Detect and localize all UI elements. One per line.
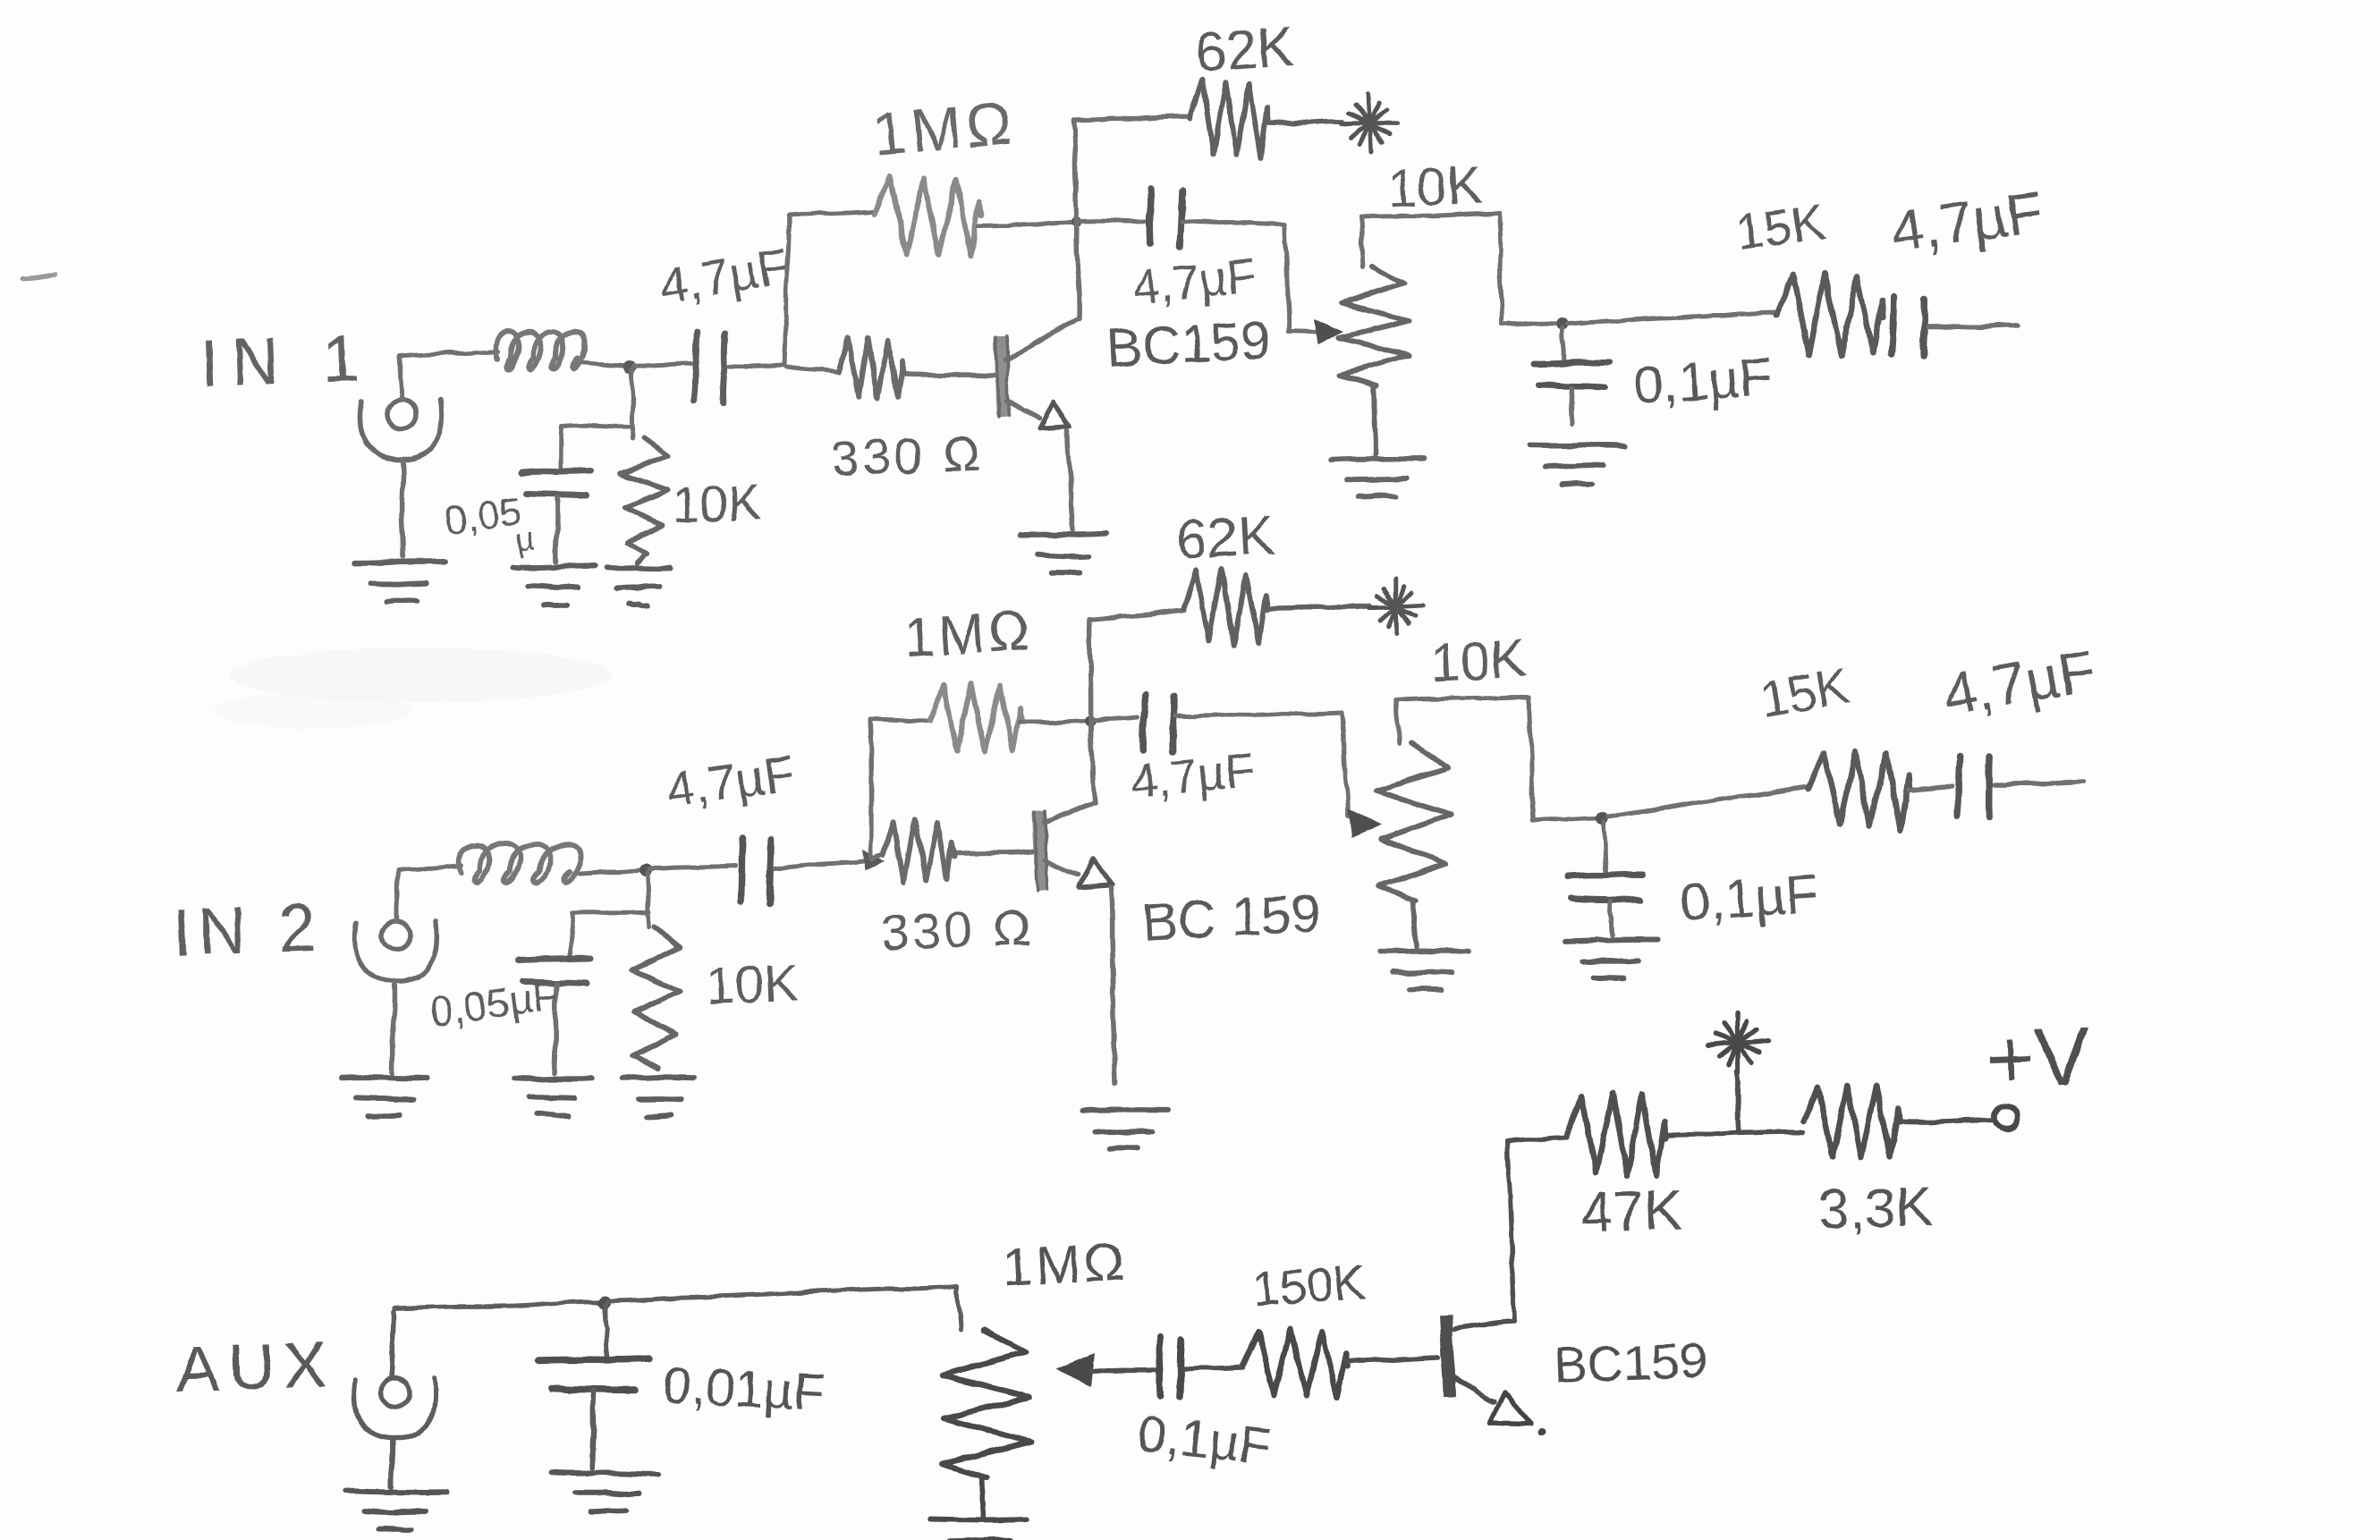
capacitor C7 4.7µF xyxy=(1143,694,1174,751)
transistor Q2 BC159 base bar xyxy=(1034,811,1047,891)
wire C5 out xyxy=(1928,325,2018,327)
capacitor C9 0.1µF xyxy=(1568,822,1643,935)
resistor R3 330Ω xyxy=(787,337,903,398)
ground (C11) xyxy=(552,1473,659,1512)
ground (jack J1) xyxy=(354,562,445,602)
transistor Q3 collector xyxy=(1454,1138,1567,1329)
capacitor C1 4.7uF xyxy=(694,332,724,402)
wire C6 to node F xyxy=(775,850,885,871)
wire J3 to node I xyxy=(394,1302,603,1308)
svg-text:330 Ω: 330 Ω xyxy=(830,425,985,487)
inductor L2 xyxy=(459,843,580,883)
label Q1 BC159 xyxy=(1105,309,1272,378)
label R1 1MΩ xyxy=(870,89,1019,169)
wire node C to C2 xyxy=(1080,218,1145,224)
label C7 4,7µF xyxy=(1128,743,1258,809)
wire J2 to L2 xyxy=(399,866,462,870)
wire node B up to R1 xyxy=(784,212,875,365)
wire top corner 2 to R7 xyxy=(1089,610,1184,621)
resistor R9 10K xyxy=(632,927,681,1069)
ground (pot P2) xyxy=(1379,951,1469,990)
svg-text:0,01µF: 0,01µF xyxy=(661,1356,826,1422)
wire branch to C8 xyxy=(571,911,649,955)
label AUX xyxy=(175,1329,337,1406)
ground (pot P3) xyxy=(930,1519,1025,1540)
ground (C3) xyxy=(513,565,595,605)
node C (collector net) xyxy=(1071,216,1082,227)
transistor Q1 collector xyxy=(1005,318,1079,360)
resistor R13 3.3K xyxy=(1803,1086,1991,1158)
capacitor C5 4.7µF xyxy=(1892,297,1925,356)
svg-text:IN 1: IN 1 xyxy=(199,320,373,401)
svg-text:AUX: AUX xyxy=(175,1329,337,1406)
wire node F up to R6 xyxy=(870,719,929,859)
ground (R4) xyxy=(606,568,669,605)
transistor Q2 emitter xyxy=(1045,860,1078,875)
label R3 330 Ω xyxy=(830,425,985,487)
emitter arrow Q3 xyxy=(1490,1392,1546,1435)
wire node H to R10 xyxy=(1607,787,1808,817)
transistor Q3 emitter xyxy=(1454,1377,1494,1402)
label R8 330 Ω xyxy=(880,899,1035,960)
ground (jack J2) xyxy=(343,1078,428,1117)
resistor R1 1MΩ xyxy=(875,176,1075,256)
ground (R9) xyxy=(623,1077,694,1116)
capacitor C10 4.7µF xyxy=(1957,756,1989,817)
svg-text:+V: +V xyxy=(1985,1011,2091,1105)
node H (output IN2) xyxy=(1596,812,1608,825)
inductor L1 xyxy=(496,331,586,369)
label P3 1MΩ xyxy=(1001,1231,1130,1298)
wire node E to C6 xyxy=(649,866,735,869)
supply star node (AUX) xyxy=(1708,1013,1767,1132)
wire collector net vertical xyxy=(1074,120,1080,318)
label R10 15K xyxy=(1756,656,1853,727)
label R5 15K xyxy=(1732,193,1828,261)
emitter arrow Q1 xyxy=(1040,402,1070,428)
potentiometer P3 1MΩ xyxy=(942,1330,1032,1519)
resistor R8 330Ω xyxy=(873,820,954,883)
label C6 4,7µF xyxy=(663,744,799,817)
svg-text:1MΩ: 1MΩ xyxy=(870,89,1019,169)
transistor Q3 BC159 base bar xyxy=(1445,1315,1450,1397)
emitter arrow Q2 xyxy=(1079,859,1112,887)
pot P1 top bracket xyxy=(1361,214,1556,325)
capacitor C8 0.05µF xyxy=(519,958,590,984)
label R13 3,3K xyxy=(1817,1176,1934,1241)
wire J1 to L1 xyxy=(400,351,498,356)
wire C2 to wiper P1 xyxy=(1182,221,1315,332)
label Q2 BC 159 xyxy=(1140,884,1322,952)
supply star node (IN1) xyxy=(1341,95,1398,152)
label R11 150K xyxy=(1251,1255,1368,1316)
wire R3 to Q1 base xyxy=(903,375,995,376)
eraser smudge xyxy=(215,648,613,729)
wire C8 to ground xyxy=(555,984,556,1073)
capacitor C12 0.1µF xyxy=(1159,1338,1182,1397)
node D (output IN1) xyxy=(1556,317,1569,330)
wire node A to C1 xyxy=(633,363,690,367)
resistor R10 15K xyxy=(1808,752,1952,830)
resistor R4 10K xyxy=(621,438,668,563)
ground (C8) xyxy=(515,1079,592,1116)
wire node G to C7 xyxy=(1095,717,1138,720)
label R4 10K xyxy=(671,474,762,533)
label C8 005µF xyxy=(427,971,561,1036)
ground (C4) xyxy=(1529,445,1623,486)
wiper arrow P1 xyxy=(1314,318,1344,345)
label C5 4,7µF xyxy=(1887,178,2047,265)
ground (pot P1) xyxy=(1331,459,1424,497)
transistor Q1 emitter xyxy=(1006,401,1039,419)
ground (jack J3) xyxy=(345,1491,447,1530)
wire C1 to node B xyxy=(729,365,782,366)
node I (junction) xyxy=(598,1296,611,1308)
label C12 0,1µF xyxy=(1135,1404,1274,1476)
svg-text:150K: 150K xyxy=(1251,1255,1368,1316)
potentiometer P2 10K xyxy=(1376,743,1452,948)
svg-text:1MΩ: 1MΩ xyxy=(902,599,1035,670)
label R7 62K xyxy=(1174,504,1276,571)
svg-text:10K: 10K xyxy=(705,953,800,1015)
node G (collector net 2) xyxy=(1085,715,1096,726)
label C2 4,7µF xyxy=(1130,249,1259,315)
capacitor C4 0.1µF xyxy=(1534,327,1609,424)
wire R8 to Q2 base xyxy=(955,851,1033,853)
label P1 10K xyxy=(1385,154,1484,218)
resistor R6 1MΩ xyxy=(929,684,1084,752)
capacitor C11 001µF xyxy=(538,1305,649,1468)
label R12 47K xyxy=(1580,1177,1683,1245)
input jack J3 xyxy=(354,1312,436,1487)
label P2 10K xyxy=(1428,628,1527,692)
stray pencil dash (top left) xyxy=(22,275,55,279)
wire Q1 emitter to ground xyxy=(1067,431,1073,529)
label C4 0,1µF xyxy=(1631,346,1774,416)
wire C12 to R11 xyxy=(1184,1367,1243,1369)
transistor Q2 collector xyxy=(1045,803,1093,823)
svg-text:47K: 47K xyxy=(1580,1177,1683,1245)
label Q3 BC159 xyxy=(1553,1332,1707,1393)
resistor R7 62K xyxy=(1184,569,1370,645)
wire C10 out xyxy=(1995,782,2084,785)
label C1 4,7µF xyxy=(656,237,792,315)
wire node D to R5 xyxy=(1568,312,1776,324)
wire node I to P3 xyxy=(607,1286,961,1330)
svg-text:BC159: BC159 xyxy=(1553,1332,1707,1393)
svg-text:62K: 62K xyxy=(1193,15,1296,84)
wiper arrow P2 xyxy=(1348,808,1382,838)
input jack J1 xyxy=(360,356,443,556)
transistor Q1 BC159 base bar xyxy=(995,336,1009,417)
supply star node (IN2) xyxy=(1369,580,1423,633)
label R6 1MΩ xyxy=(902,599,1035,670)
resistor R12 47K xyxy=(1567,1094,1803,1176)
resistor R5 15K xyxy=(1776,274,1883,356)
svg-text:10K: 10K xyxy=(1385,154,1484,218)
capacitor C2 4.7µF xyxy=(1149,189,1182,246)
node E (junction) xyxy=(639,864,652,876)
svg-text:0,1µF: 0,1µF xyxy=(1678,863,1820,933)
node A (junction dot) xyxy=(623,361,636,374)
terminal +V xyxy=(1995,1105,2018,1129)
pot P2 top bracket xyxy=(1396,698,1597,820)
wire branch to C3 xyxy=(561,425,633,467)
wire C7 to wiper P2 xyxy=(1175,713,1348,816)
label R2 62K xyxy=(1193,15,1296,84)
wiper arrow P3 xyxy=(1055,1353,1156,1386)
resistor R11 150K xyxy=(1243,1329,1438,1397)
svg-text:BC159: BC159 xyxy=(1105,309,1272,378)
label C3 0,05µ xyxy=(443,489,537,558)
svg-text:IN 2: IN 2 xyxy=(172,890,325,969)
ground (Q2 emitter) xyxy=(1081,1110,1167,1148)
input jack J2 xyxy=(355,870,437,1073)
label IN 2 xyxy=(172,890,325,969)
capacitor C3 0.05µF xyxy=(521,470,591,495)
wire top corner to R2 xyxy=(1074,117,1190,120)
label +V xyxy=(1985,1011,2091,1105)
svg-text:10K: 10K xyxy=(1428,628,1527,692)
label C9 0,1µF xyxy=(1678,863,1820,933)
svg-text:62K: 62K xyxy=(1174,504,1276,571)
wire C3 to ground xyxy=(556,497,558,562)
svg-text:3,3K: 3,3K xyxy=(1817,1176,1934,1241)
wire L1 to node A xyxy=(583,363,626,367)
svg-text:10K: 10K xyxy=(671,474,762,533)
svg-text:BC 159: BC 159 xyxy=(1140,884,1322,952)
label C10 4,7µF xyxy=(1939,636,2100,727)
capacitor C6 4.7µF xyxy=(741,838,772,903)
svg-text:1MΩ: 1MΩ xyxy=(1001,1231,1130,1298)
resistor R2 62K xyxy=(1190,80,1342,158)
wire node A down xyxy=(631,370,633,438)
wire Q2 emitter to ground xyxy=(1111,887,1114,1084)
svg-text:330 Ω: 330 Ω xyxy=(880,899,1035,960)
ground (Q1 emitter) xyxy=(1021,534,1107,573)
label C11 001µF xyxy=(661,1356,826,1422)
ground (C9) xyxy=(1565,940,1658,978)
wire L2 to node E xyxy=(580,870,640,874)
wire node E down xyxy=(648,873,649,927)
wire collector net 2 vertical xyxy=(1089,621,1095,803)
svg-text:0,1µF: 0,1µF xyxy=(1631,346,1774,416)
label IN 1 xyxy=(199,320,373,401)
potentiometer P1 10K xyxy=(1339,267,1410,454)
label R9 10K xyxy=(705,953,800,1015)
